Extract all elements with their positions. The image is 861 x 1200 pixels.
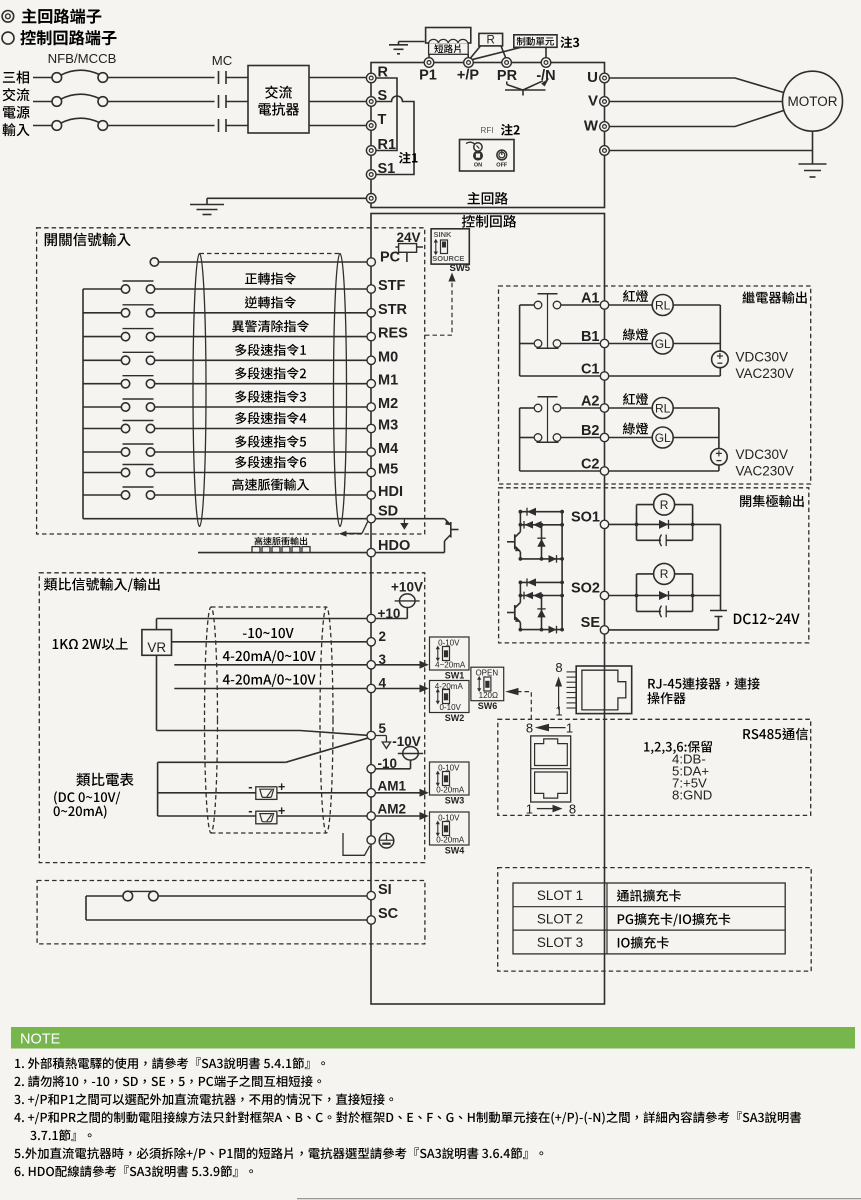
wire SI to SC loop (86, 895, 123, 897)
resistor R box (479, 33, 503, 46)
RS485 jack lower (535, 772, 568, 798)
analog shield bottom dashed (211, 832, 327, 834)
legend main-circuit-terminal symbol (2, 10, 14, 22)
terminal PR (502, 58, 512, 68)
note line 1 (15, 1057, 325, 1069)
svg-text:SOURCE: SOURCE (432, 254, 464, 263)
terminal 2 (367, 638, 375, 646)
terminal PE analog (367, 836, 375, 844)
terminal AM1 (367, 789, 375, 797)
svg-text:SE: SE (581, 615, 601, 631)
analog meter range label (54, 791, 120, 804)
svg-text:0-10V: 0-10V (440, 703, 462, 712)
terminal HDO (367, 548, 375, 556)
terminal SC (367, 916, 375, 924)
switch-input section label (45, 233, 131, 247)
terminal PE input (366, 194, 376, 204)
terminal -/N (541, 58, 551, 68)
power source 1 (712, 351, 729, 368)
wire terminal 4 (174, 688, 367, 690)
terminal STF (367, 285, 375, 293)
wire input phase 1 segment c (226, 77, 248, 79)
note line 3 (14, 1093, 393, 1106)
wire +10 to source (375, 618, 407, 620)
main-circuit label (468, 192, 508, 205)
terminal SO1 (600, 520, 608, 528)
svg-text:+10: +10 (378, 606, 401, 621)
lamp GL1 (609, 343, 653, 345)
slot table frame (513, 883, 785, 954)
wire AM2 to SW4 (375, 815, 419, 817)
high-speed pulse output label (255, 537, 308, 545)
wire M1 to terminal (155, 383, 367, 385)
ground symbol input side (206, 198, 208, 204)
inverter main-circuit box (371, 63, 605, 208)
svg-text:PC: PC (380, 250, 401, 266)
svg-text:24V: 24V (396, 230, 420, 245)
wire W to motor (609, 111, 783, 127)
svg-text:SO2: SO2 (571, 581, 600, 597)
motor ground stem (812, 131, 814, 164)
lamp RL1 (609, 304, 653, 306)
terminal U (600, 73, 610, 83)
terminal V (600, 97, 610, 107)
wire input phase 1 segment d (309, 77, 366, 79)
wire SO1 to network (609, 523, 637, 525)
legend control-circuit label (20, 30, 116, 45)
svg-text:R: R (660, 567, 669, 581)
SW5 dashed pointer (425, 277, 452, 335)
slot dashed box (498, 868, 812, 972)
svg-text:SC: SC (378, 906, 399, 922)
svg-text:+: + (278, 780, 285, 794)
wire input phase 1 segment b (108, 77, 215, 79)
relay contact B circles relay2 (534, 434, 542, 442)
wire network1 to bus (693, 523, 721, 525)
wire terminal 2 (172, 641, 368, 643)
wire RES from bus (83, 336, 121, 338)
terminal W (600, 122, 610, 132)
svg-text:SLOT 3: SLOT 3 (537, 935, 583, 950)
svg-text:MC: MC (212, 53, 233, 68)
wire PE to motor ground (609, 150, 812, 152)
wire HDO external (198, 552, 367, 554)
DIP switch SW3 (430, 762, 470, 795)
shorting-bar outer plate (426, 28, 471, 44)
potentiometer VR box (142, 630, 172, 656)
meter AM1 (256, 787, 277, 800)
cable shield left end (193, 254, 206, 527)
svg-text:8: 8 (569, 802, 576, 817)
svg-text:STR: STR (378, 302, 408, 318)
analog section label (44, 578, 160, 592)
sink current arrow (403, 519, 405, 523)
terminal M4 (367, 448, 375, 456)
wire relay1-common (520, 375, 601, 377)
svg-text:-: - (248, 803, 252, 818)
relay contact A circles relay2 (534, 404, 542, 412)
brake unit legs (470, 47, 521, 60)
svg-text:P1: P1 (419, 68, 437, 84)
terminal 3 (367, 661, 375, 669)
wire relay22 right (561, 437, 601, 439)
terminal 4 (367, 684, 375, 692)
terminal M1 (367, 380, 375, 388)
wire STF to terminal (155, 288, 367, 290)
svg-text:8: 8 (526, 721, 533, 736)
note line 6 (14, 1147, 543, 1160)
svg-text:C2: C2 (581, 457, 600, 473)
svg-text:-10V: -10V (392, 734, 421, 749)
wire input phase 3 segment a (33, 125, 52, 127)
terminal -10 (367, 765, 375, 773)
output transistor SO2 (520, 581, 562, 583)
terminal PE output (600, 146, 610, 156)
svg-text:M3: M3 (378, 418, 398, 434)
RS485 jack upper (535, 739, 568, 766)
NOTE header bar (11, 1027, 855, 1049)
terminal M3 (367, 424, 375, 432)
wire input phase 1 segment a (33, 77, 52, 79)
wire SI row (158, 895, 367, 897)
svg-text:SO1: SO1 (571, 510, 600, 526)
wire input phase 2 segment c (226, 101, 248, 103)
svg-text:SI: SI (378, 882, 392, 898)
svg-text:AM1: AM1 (378, 779, 407, 794)
SW5 dip switch (435, 241, 437, 254)
wire network2 to bus (693, 595, 721, 597)
switch contact STF (121, 285, 129, 293)
svg-text:0-20mA: 0-20mA (436, 836, 465, 845)
meter loop left bus (157, 762, 159, 816)
wire V to motor (609, 101, 782, 103)
svg-text:T: T (378, 112, 387, 128)
resistor R legs (469, 46, 480, 60)
output transistor SO1 (520, 511, 562, 513)
AC reactor label (265, 86, 292, 99)
open-collector right bus (720, 524, 722, 610)
terminal A1 (600, 301, 608, 309)
svg-text:SW3: SW3 (445, 796, 465, 806)
wire 24V fuse line (395, 246, 423, 248)
transistor HDO (450, 522, 452, 538)
terminal SE (600, 626, 608, 634)
fuse 24V (399, 244, 417, 253)
svg-text:2: 2 (379, 629, 387, 644)
switch contact HDI (121, 491, 129, 499)
shield to PE hook (343, 833, 370, 855)
shorting-bar label (434, 44, 460, 53)
wire HDI from bus (83, 494, 121, 496)
wire relay22 left (520, 437, 534, 439)
svg-text:R: R (660, 498, 669, 512)
switch contact M0 (121, 356, 129, 364)
wire input phase 2 segment a (33, 101, 52, 103)
analog range label row4 (223, 674, 316, 687)
svg-text:RL: RL (655, 298, 671, 312)
signal label 多段速指令1 (235, 344, 306, 356)
wire input phase 3 segment c (226, 125, 248, 127)
relay1 right bus (719, 305, 721, 351)
power source 2 (711, 449, 728, 466)
open-collector section label (740, 495, 804, 507)
wire VR to terminal 5 (156, 655, 158, 730)
breaker NFB pole 1 (52, 73, 62, 83)
wire M3 from bus (83, 428, 121, 430)
wire M2 from bus (83, 406, 121, 408)
terminal M2 (367, 403, 375, 411)
RS485 pin assignment (644, 741, 712, 754)
RFI screw ON (466, 142, 475, 144)
note1 label (399, 152, 418, 164)
motor circle (783, 71, 843, 131)
wire M0 from bus (83, 359, 121, 361)
svg-text:120Ω: 120Ω (479, 691, 498, 700)
breaker NFB pole 2 (52, 97, 62, 107)
relay contact B circles relay1 (534, 340, 542, 348)
wire M3 to terminal (155, 428, 367, 430)
terminal 5 (367, 731, 375, 739)
svg-text:4~20mA: 4~20mA (435, 661, 466, 670)
lamp RL2 (609, 407, 653, 409)
wire HDI to terminal (155, 494, 367, 496)
svg-text:SLOT 2: SLOT 2 (537, 911, 583, 926)
wire M5 from bus (83, 472, 121, 474)
wire ground to P1 jumper (399, 41, 425, 43)
wire -10 to source (375, 768, 410, 770)
wire M0 to terminal (155, 359, 367, 361)
terminal SO2 (600, 591, 608, 599)
wire HDO internal (375, 552, 444, 554)
contactor MC pole 3 (218, 119, 220, 132)
terminal B2 (600, 433, 608, 441)
svg-text:8:GND: 8:GND (672, 788, 712, 803)
jumper S to S1 with crossover hop (376, 96, 414, 175)
terminal S (366, 97, 376, 107)
wire +10 to VR (157, 618, 368, 620)
wire SD internal (375, 518, 444, 520)
wire PE to ground (207, 197, 366, 199)
DIP switch SW2 (430, 681, 470, 713)
svg-text:GL: GL (655, 337, 671, 351)
analog range label -10~10V (243, 628, 294, 638)
svg-text:SINK: SINK (434, 230, 453, 239)
RJ45 operator pins (567, 671, 577, 673)
red lamp label 2 (623, 393, 648, 405)
contact PC external (150, 258, 158, 266)
jumper R to R1 (376, 78, 397, 151)
RJ45 pin direction arrow (558, 685, 560, 710)
signal label 多段速指令4 (235, 412, 306, 424)
wire terminal 3 to SW1 (375, 664, 419, 666)
shorting-bar coil (429, 39, 468, 43)
shield drain to SD (362, 522, 368, 534)
svg-text:GL: GL (655, 431, 671, 445)
svg-text:OPEN: OPEN (475, 669, 498, 678)
breaker NFB pole 3 (52, 121, 62, 131)
svg-text:ON: ON (474, 163, 482, 169)
wire M4 from bus (83, 451, 121, 453)
svg-text:NOTE: NOTE (20, 1032, 61, 1048)
analog meter label (76, 773, 133, 787)
analog range label row3 (223, 650, 316, 663)
svg-text:MOTOR: MOTOR (788, 94, 838, 109)
battery DC12-24V (710, 610, 727, 612)
VR rating label (53, 638, 128, 650)
analog shield left end (205, 607, 218, 833)
switch contact M2 (121, 403, 129, 411)
DIP switch SW6 (471, 667, 504, 701)
svg-text:V: V (588, 93, 598, 110)
wire AM1 to SW3 (375, 792, 419, 794)
svg-text:8: 8 (555, 660, 562, 675)
red lamp label 1 (623, 290, 648, 302)
inverter control-circuit box (371, 214, 605, 1005)
wire STR from bus (83, 312, 121, 314)
SW5 box (431, 229, 469, 264)
note2 label (501, 124, 520, 136)
signal label 異警清除指令 (232, 320, 309, 332)
ground symbol analog (379, 833, 394, 848)
wire input phase 3 segment d (309, 125, 366, 127)
svg-text:A1: A1 (581, 291, 600, 307)
wire terminal 4 to SW2 (375, 688, 419, 690)
wire input phase 3 segment b (108, 125, 215, 127)
svg-text:5: 5 (379, 721, 387, 736)
wire relay12 left (520, 343, 534, 345)
wire STF from bus (83, 288, 121, 290)
wire input phase 2 segment d (309, 101, 366, 103)
wire input phase 2 segment b (108, 101, 215, 103)
terminal AM2 (367, 812, 375, 820)
relay relay1 left bus (519, 305, 521, 376)
relay contact relay1 NC bar (538, 293, 558, 295)
relay relay2 left bus (519, 408, 521, 471)
svg-text:STF: STF (378, 278, 406, 294)
svg-text:B2: B2 (581, 423, 600, 439)
switch contact M3 (121, 424, 129, 432)
brake chopper switch (506, 82, 508, 85)
relay relay2 actuator (547, 397, 549, 443)
DIP switch SW4 (430, 812, 470, 845)
cable shield right end (334, 254, 347, 527)
green lamp label 1 (623, 329, 648, 341)
svg-text:SW2: SW2 (445, 713, 465, 723)
svg-text:M0: M0 (378, 349, 398, 365)
contactor MC pole 1 (218, 71, 220, 84)
terminal RES (367, 332, 375, 340)
contactor MC pole 2 (218, 95, 220, 108)
svg-text:M5: M5 (378, 462, 398, 478)
RS485 dashed box (498, 719, 811, 815)
svg-text:RES: RES (378, 326, 408, 342)
brake unit box (514, 35, 557, 48)
relay2 right bus (718, 408, 720, 449)
svg-text:-/N: -/N (536, 68, 555, 84)
switch contact M5 (121, 468, 129, 476)
wire SO2 to network (609, 595, 637, 597)
meter AM2 (256, 811, 277, 824)
terminal +10 (367, 614, 375, 622)
svg-text:RFI: RFI (481, 126, 494, 135)
terminal +/P (464, 58, 474, 68)
note line 2 (14, 1075, 321, 1087)
analog shield top dashed (211, 606, 327, 608)
AC reactor box (248, 66, 309, 134)
switch-input left bus (82, 289, 84, 519)
wire U to motor (609, 78, 783, 93)
DIP switch SW1 (430, 637, 470, 670)
svg-text:VAC230V: VAC230V (736, 366, 794, 381)
meter loop top wire (158, 761, 286, 763)
wire STR to terminal (155, 312, 367, 314)
svg-text:VDC30V: VDC30V (736, 349, 789, 364)
svg-text:C1: C1 (581, 362, 600, 378)
svg-text:B1: B1 (581, 329, 600, 345)
wire PC riser (406, 247, 408, 262)
switch contact RES (121, 332, 129, 340)
control-circuit label (462, 215, 517, 228)
terminal M5 (367, 468, 375, 476)
terminal C1 (600, 372, 608, 380)
cable shield top dashed (200, 253, 341, 255)
wire relay11 right (561, 304, 601, 306)
wire C2 (609, 470, 719, 472)
lamp GL2 (609, 437, 653, 439)
RS485 section label (743, 728, 808, 740)
svg-text:VDC30V: VDC30V (736, 447, 789, 462)
open-collector dashed box (499, 488, 809, 643)
wire M5 to terminal (155, 472, 367, 474)
svg-text:U: U (587, 69, 598, 86)
svg-text:VAC230V: VAC230V (736, 463, 794, 478)
signal label 多段速指令2 (235, 367, 306, 379)
wire M2 to terminal (155, 406, 367, 408)
analog shield right end (320, 607, 333, 833)
signal label 多段速指令5 (235, 435, 306, 447)
svg-text:A2: A2 (581, 394, 600, 410)
SW6 dashed pointer (519, 692, 532, 720)
snubber network SO1 (636, 505, 638, 541)
ground symbol top (398, 42, 400, 45)
terminal STR (367, 309, 375, 317)
svg-text:SW5: SW5 (450, 263, 471, 274)
terminal T (366, 121, 376, 131)
svg-text:HDI: HDI (378, 484, 403, 500)
wire terminal 3 (174, 664, 367, 666)
svg-text:RL: RL (655, 401, 671, 415)
terminal SD (367, 515, 375, 523)
switch contact STR (121, 309, 129, 317)
svg-text:W: W (584, 118, 599, 135)
svg-text:-: - (248, 779, 252, 794)
relay-output dashed box (499, 286, 811, 484)
signal label 高速脈衝輸入 (232, 478, 309, 490)
shorting-bar label box (429, 43, 469, 55)
svg-text:OFF: OFF (496, 163, 508, 169)
brake unit label (517, 37, 554, 46)
wire SD common (83, 518, 367, 520)
svg-text:+/P: +/P (457, 68, 479, 84)
svg-text:SW4: SW4 (445, 846, 465, 856)
svg-text:SD: SD (378, 504, 398, 520)
label three-phase AC power input (3, 71, 29, 84)
terminal R1 (366, 146, 376, 156)
legend control-circuit-terminal symbol (2, 32, 14, 44)
note3 label (560, 36, 579, 48)
wire M4 to terminal (155, 451, 367, 453)
svg-text:PR: PR (497, 68, 518, 84)
